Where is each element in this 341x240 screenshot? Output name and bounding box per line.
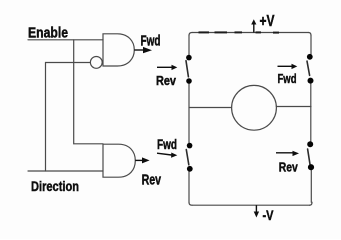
svg-text:Fwd: Fwd	[278, 71, 297, 86]
svg-text:Rev: Rev	[142, 171, 162, 188]
svg-text:Fwd: Fwd	[141, 33, 161, 50]
svg-text:+V: +V	[260, 13, 275, 30]
svg-text:Rev: Rev	[279, 160, 299, 175]
svg-text:Rev: Rev	[156, 74, 176, 88]
svg-text:Fwd: Fwd	[157, 137, 177, 152]
svg-text:Direction: Direction	[31, 179, 79, 194]
svg-text:Enable: Enable	[28, 25, 68, 42]
svg-text:-V: -V	[263, 207, 275, 223]
